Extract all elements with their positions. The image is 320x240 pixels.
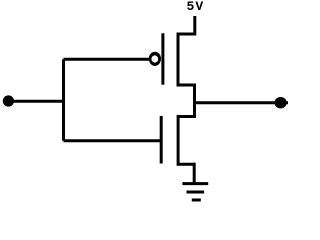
transistor Q1 PMOS inversion bubble [149,52,161,66]
wire: gate junction vertical [62,59,65,141]
wire: junction to NMOS gate [64,139,162,142]
input terminal dot [3,95,14,106]
transistor Q2 NMOS gate bar [160,116,163,164]
wire: input to gate junction [8,100,65,103]
wire: drain junction vertical [193,84,196,119]
transistor Q2 NMOS channel with drain/source leads [178,115,194,166]
output terminal dot [275,97,287,108]
transistor Q1 PMOS gate bar [161,33,164,84]
wire: drain node to output [195,101,289,104]
ground symbol [182,184,208,200]
wire: junction to PMOS gate bubble [64,58,151,61]
transistor Q1 PMOS channel with source/drain leads [178,16,195,85]
svg-text:5V: 5V [187,0,205,14]
wire: ground stub [193,163,196,184]
